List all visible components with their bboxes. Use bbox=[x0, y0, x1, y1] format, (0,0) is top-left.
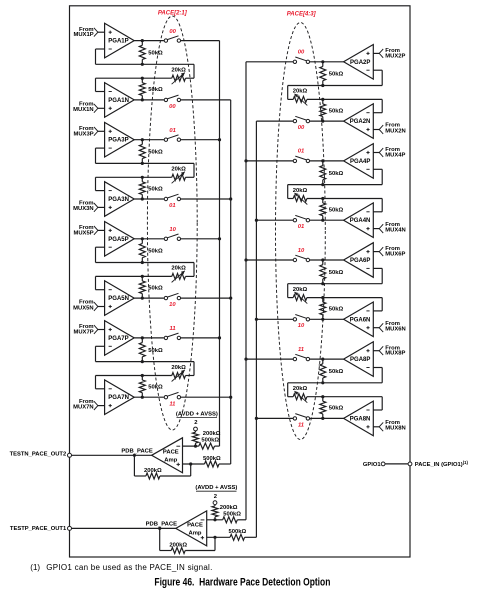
svg-text:50kΩ: 50kΩ bbox=[329, 72, 344, 78]
svg-text:00: 00 bbox=[298, 125, 305, 131]
svg-text:MUX3N: MUX3N bbox=[73, 206, 93, 212]
svg-text:50kΩ: 50kΩ bbox=[148, 186, 163, 192]
svg-text:PGA8P: PGA8P bbox=[350, 357, 370, 363]
svg-text:500kΩ: 500kΩ bbox=[203, 456, 221, 462]
svg-text:PACE_IN (GPIO1)(1): PACE_IN (GPIO1)(1) bbox=[415, 460, 469, 468]
svg-text:(AVDD + AVSS): (AVDD + AVSS) bbox=[195, 485, 237, 491]
svg-text:MUX4P: MUX4P bbox=[385, 153, 405, 159]
svg-text:PACE: PACE bbox=[187, 523, 203, 529]
svg-text:(1): (1) bbox=[30, 563, 40, 572]
svg-text:PGA6P: PGA6P bbox=[350, 258, 370, 264]
svg-text:50kΩ: 50kΩ bbox=[329, 307, 344, 313]
svg-text:01: 01 bbox=[298, 149, 305, 155]
svg-text:MUX1N: MUX1N bbox=[73, 107, 93, 113]
svg-text:GPIO1: GPIO1 bbox=[363, 462, 381, 468]
svg-text:20kΩ: 20kΩ bbox=[171, 266, 186, 272]
svg-text:PGA5P: PGA5P bbox=[108, 237, 128, 243]
svg-text:PGA6N: PGA6N bbox=[350, 317, 371, 323]
svg-text:200kΩ: 200kΩ bbox=[144, 468, 162, 474]
svg-text:MUX5P: MUX5P bbox=[73, 230, 93, 236]
svg-text:11: 11 bbox=[170, 326, 176, 332]
svg-text:PGA1N: PGA1N bbox=[108, 98, 129, 104]
svg-text:11: 11 bbox=[169, 401, 175, 407]
svg-text:PGA3P: PGA3P bbox=[108, 138, 128, 144]
svg-text:MUX7P: MUX7P bbox=[73, 330, 93, 336]
svg-text:MUX7N: MUX7N bbox=[73, 404, 93, 410]
svg-text:PGA1P: PGA1P bbox=[108, 39, 128, 45]
svg-text:500kΩ: 500kΩ bbox=[223, 511, 241, 517]
svg-text:MUX2P: MUX2P bbox=[385, 53, 405, 59]
svg-text:PGA5N: PGA5N bbox=[108, 296, 129, 302]
svg-text:10: 10 bbox=[298, 323, 305, 329]
svg-text:200kΩ: 200kΩ bbox=[169, 543, 187, 549]
svg-text:20kΩ: 20kΩ bbox=[171, 365, 186, 371]
svg-text:50kΩ: 50kΩ bbox=[148, 150, 163, 156]
svg-text:50kΩ: 50kΩ bbox=[148, 385, 163, 391]
svg-text:PGA4N: PGA4N bbox=[350, 218, 371, 224]
svg-text:PGA2N: PGA2N bbox=[350, 119, 371, 125]
svg-text:500kΩ: 500kΩ bbox=[228, 529, 246, 535]
svg-text:50kΩ: 50kΩ bbox=[148, 51, 163, 57]
svg-text:50kΩ: 50kΩ bbox=[148, 87, 163, 93]
svg-text:MUX4N: MUX4N bbox=[385, 227, 405, 233]
svg-text:PGA7N: PGA7N bbox=[108, 395, 129, 401]
svg-text:00: 00 bbox=[169, 29, 176, 35]
svg-text:MUX8N: MUX8N bbox=[385, 426, 405, 432]
svg-text:20kΩ: 20kΩ bbox=[171, 68, 186, 74]
svg-text:GPIO1 can be used as the PACE_: GPIO1 can be used as the PACE_IN signal. bbox=[46, 563, 212, 572]
svg-text:(AVDD + AVSS): (AVDD + AVSS) bbox=[176, 411, 218, 417]
svg-text:MUX6P: MUX6P bbox=[385, 252, 405, 258]
svg-text:TESTP_PACE_OUT1: TESTP_PACE_OUT1 bbox=[10, 526, 67, 532]
svg-text:50kΩ: 50kΩ bbox=[329, 369, 344, 375]
svg-text:500kΩ: 500kΩ bbox=[201, 438, 219, 444]
svg-text:50kΩ: 50kΩ bbox=[329, 208, 344, 214]
svg-text:11: 11 bbox=[298, 347, 304, 353]
svg-text:PGA2P: PGA2P bbox=[350, 60, 370, 66]
svg-text:20kΩ: 20kΩ bbox=[171, 167, 186, 173]
svg-text:200kΩ: 200kΩ bbox=[203, 431, 221, 437]
svg-text:MUX8P: MUX8P bbox=[385, 351, 405, 357]
svg-text:MUX5N: MUX5N bbox=[73, 305, 93, 311]
svg-text:01: 01 bbox=[169, 203, 176, 209]
svg-text:PGA7P: PGA7P bbox=[108, 336, 128, 342]
svg-text:50kΩ: 50kΩ bbox=[148, 348, 163, 354]
svg-text:PDB_PACE: PDB_PACE bbox=[146, 521, 177, 527]
svg-text:MUX3P: MUX3P bbox=[73, 131, 93, 137]
svg-text:MUX2N: MUX2N bbox=[385, 128, 405, 134]
svg-text:50kΩ: 50kΩ bbox=[329, 270, 344, 276]
svg-text:PACE: PACE bbox=[163, 450, 179, 456]
svg-text:10: 10 bbox=[169, 302, 176, 308]
svg-text:50kΩ: 50kΩ bbox=[329, 171, 344, 177]
svg-text:01: 01 bbox=[298, 224, 305, 230]
svg-text:MUX1P: MUX1P bbox=[73, 32, 93, 38]
svg-text:11: 11 bbox=[298, 422, 304, 428]
svg-text:10: 10 bbox=[169, 227, 176, 233]
svg-text:PGA3N: PGA3N bbox=[108, 197, 129, 203]
svg-text:PGA8N: PGA8N bbox=[350, 416, 371, 422]
svg-text:PGA4P: PGA4P bbox=[350, 159, 370, 165]
svg-text:PACE[4:3]: PACE[4:3] bbox=[287, 12, 317, 18]
svg-text:200kΩ: 200kΩ bbox=[220, 505, 238, 511]
svg-text:MUX6N: MUX6N bbox=[385, 327, 405, 333]
svg-text:50kΩ: 50kΩ bbox=[148, 249, 163, 255]
svg-text:Figure 46. Hardware Pace Dete: Figure 46. Hardware Pace Detection Optio… bbox=[154, 576, 330, 588]
svg-text:PACE[2:1]: PACE[2:1] bbox=[158, 10, 188, 16]
svg-text:50kΩ: 50kΩ bbox=[329, 108, 344, 114]
svg-text:Amp: Amp bbox=[164, 458, 177, 464]
svg-text:PDB_PACE: PDB_PACE bbox=[121, 448, 152, 454]
svg-text:00: 00 bbox=[298, 50, 305, 56]
svg-text:TESTN_PACE_OUT2: TESTN_PACE_OUT2 bbox=[10, 452, 67, 458]
svg-text:10: 10 bbox=[298, 248, 305, 254]
svg-text:50kΩ: 50kΩ bbox=[148, 285, 163, 291]
svg-text:50kΩ: 50kΩ bbox=[329, 406, 344, 412]
svg-text:Amp: Amp bbox=[189, 531, 202, 537]
svg-text:00: 00 bbox=[169, 104, 176, 110]
svg-text:01: 01 bbox=[169, 128, 176, 134]
